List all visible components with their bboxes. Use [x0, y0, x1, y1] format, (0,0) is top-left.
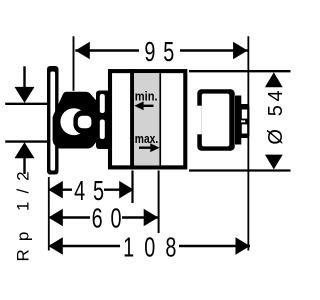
- extension line right (95 and 108): [247, 36, 249, 250]
- mounting bracket: [96, 91, 111, 150]
- svg-text:min.: min.: [135, 88, 158, 103]
- spindle tab inside circle: [73, 110, 96, 134]
- max arrow (right): [150, 143, 159, 152]
- extension line diameter top: [189, 70, 291, 72]
- dimension 60: [49, 216, 91, 218]
- step piece: [235, 96, 241, 145]
- valve body octagon: [53, 92, 99, 149]
- thick internal divider: [130, 69, 134, 170]
- valve white circle: [60, 108, 87, 135]
- dimension 108: [49, 245, 121, 247]
- dimension 95: [75, 49, 139, 51]
- svg-text:95: 95: [144, 37, 182, 68]
- white dot in tab: [78, 116, 92, 128]
- svg-text:60: 60: [92, 203, 130, 234]
- valve body spout to bracket: [93, 113, 102, 130]
- wall plate (escutcheon edge view): [47, 66, 59, 175]
- extension line 60 right: [158, 171, 160, 234]
- svg-text:108: 108: [123, 232, 186, 263]
- svg-text:Rp 1/2: Rp 1/2: [14, 163, 33, 261]
- spindle block: [240, 104, 250, 138]
- svg-text:45: 45: [74, 176, 112, 207]
- left small dimension (pipe connection): [5, 103, 49, 105]
- dimension diameter 54 (vertical, right): [265, 72, 283, 87]
- dimension 45: [49, 188, 73, 190]
- extension line 45 right: [131, 171, 133, 204]
- svg-text:max.: max.: [135, 131, 158, 147]
- cap sleeve (black outline with white inside): [197, 89, 234, 150]
- extension line left of 95 dim: [73, 36, 75, 91]
- min arrow (left): [134, 101, 143, 110]
- extension line wall face (45/60/108 left): [48, 177, 50, 251]
- gray adjustment band: [134, 73, 159, 165]
- thin line right of gray band: [159, 73, 161, 165]
- extension line diameter bottom: [189, 169, 291, 171]
- svg-text:Ø 54: Ø 54: [265, 87, 287, 145]
- main body rectangle: [110, 71, 185, 167]
